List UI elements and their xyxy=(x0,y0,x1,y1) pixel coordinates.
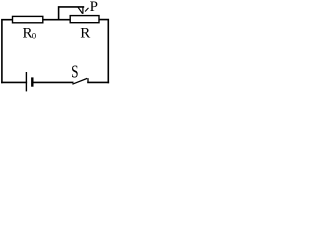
svg-text:P: P xyxy=(90,0,98,15)
svg-text:R: R xyxy=(80,26,90,42)
svg-text:S: S xyxy=(71,63,78,82)
svg-text:0: 0 xyxy=(32,31,36,41)
